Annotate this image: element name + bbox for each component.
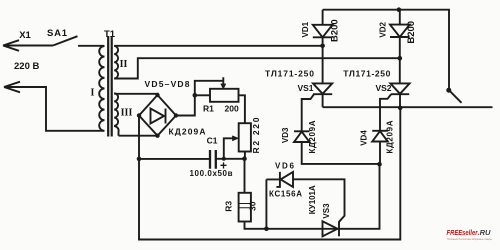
node: bridge right corner (174, 113, 178, 117)
bridge inner diode cathode bar (165, 109, 167, 124)
wire: VS2 cathode to output rail (399, 94, 401, 108)
thyristor VS3 triangle (323, 221, 338, 236)
thyristor VS1 triangle (313, 83, 332, 93)
wire: winding III top to bridge AC top (114, 94, 157, 95)
svg-text:VD2: VD2 (378, 21, 387, 37)
node: VD3/VD4 anodes junction (377, 162, 382, 167)
wire: VD4 cathode up to VS2 gate (380, 94, 391, 130)
VS2 cathode bar (391, 93, 409, 95)
svg-text:КД209А: КД209А (169, 127, 206, 137)
svg-text:VD5–VD8: VD5–VD8 (145, 79, 190, 89)
node: negative vertical / C1 wire (137, 157, 142, 162)
node: bridge bottom corner (155, 134, 159, 138)
wire: negative node to C1 left plate (139, 158, 210, 160)
svg-text:VS2: VS2 (375, 83, 391, 93)
resistor R2 box (239, 123, 251, 151)
bridge inner diode triangle (151, 109, 165, 124)
wire: SA1 to T1 primary top (78, 45, 104, 47)
wire: bridge minus down, outer bottom return to VS2 cathode (139, 108, 400, 240)
wire: VD3 bottom to VD4 bottom junction (302, 142, 380, 164)
svg-text:КД209А: КД209А (308, 120, 317, 153)
wire: rail through thyristor VS3 (323, 228, 340, 230)
wire: R2 bottom stub (244, 152, 246, 159)
wire: trigger rail VS3 cathode side up to VD3/VD4 anodes (339, 164, 380, 229)
svg-text:КС156А: КС156А (269, 190, 302, 199)
node: top rail / VD2 (397, 7, 402, 12)
transformer T1 core (108, 36, 112, 137)
node: rail A / VD1 (320, 44, 325, 49)
svg-text:30: 30 (248, 201, 258, 211)
node: switch pivot (446, 88, 451, 93)
VD6 cathode bar with foot (276, 172, 280, 187)
VS3 gate lead to VD6 (293, 179, 345, 222)
svg-text:C1: C1 (207, 136, 218, 146)
wire: VD3 cathode up to VS1 gate (302, 94, 314, 131)
svg-text:ТЛ171-250: ТЛ171-250 (343, 69, 390, 79)
svg-text:КД209А: КД209А (386, 120, 395, 153)
svg-text:VD6: VD6 (275, 162, 295, 171)
diode VD4 triangle (372, 131, 388, 141)
svg-text:III: III (121, 108, 133, 119)
svg-text:FREEseller: FREEseller (447, 228, 479, 237)
node: VS2 cathode / output rail (398, 106, 403, 111)
wire: VS1 cathode to output rail (322, 94, 324, 107)
node: bridge top corner (155, 93, 159, 97)
wire: winding III bottom to bridge AC bottom (119, 135, 158, 137)
node: C1 / R2 wiper (222, 157, 226, 161)
svg-text:VD1: VD1 (301, 21, 310, 37)
svg-text:T1: T1 (104, 29, 116, 40)
svg-text:R1: R1 (203, 104, 214, 114)
VD3 cathode bar (294, 130, 310, 132)
svg-text:КУ101А: КУ101А (308, 185, 317, 214)
wire: R3 bottom to trigger rail (245, 222, 323, 229)
diode VD1 (313, 10, 333, 46)
wire: X1 bottom to T1 primary bottom (4, 87, 104, 131)
resistor R1 box (210, 89, 239, 102)
svg-text:100.0x50в: 100.0x50в (190, 169, 233, 178)
R1 wiper arm (195, 77, 226, 95)
diode VD2 (390, 10, 410, 59)
wire: bridge plus right up to R1 node (176, 95, 195, 115)
zener VD6 triangle (281, 172, 293, 187)
terminal X1 arrow bottom (4, 82, 20, 93)
node: R2 bottom / R3 top (242, 156, 247, 161)
wire: node down to R3 top (244, 159, 246, 193)
svg-text:VS3: VS3 (322, 203, 331, 219)
thyristor VS2 triangle (390, 83, 409, 93)
svg-text:VD3: VD3 (281, 127, 290, 143)
svg-text:VS1: VS1 (297, 83, 313, 93)
node: VD6 / trigger rail (264, 227, 269, 232)
wire: VD4 bottom to junction (379, 142, 381, 164)
VS1 cathode bar (313, 93, 332, 95)
svg-text:220 В: 220 В (14, 61, 39, 72)
VD4 cathode bar (372, 130, 388, 132)
output switch blade (449, 90, 462, 103)
wire: VD1 node down to VS1 anode (crosses rail B) (322, 46, 324, 84)
svg-text:.RU: .RU (478, 228, 492, 237)
svg-text:X1: X1 (19, 30, 31, 41)
wire: C1 right plate to R2/R3 node (216, 158, 245, 160)
switch SA1 blade (53, 36, 78, 45)
transformer T1 primary winding I (99, 46, 104, 131)
transformer T1 secondary winding II (114, 46, 118, 79)
svg-text:В200: В200 (330, 19, 341, 42)
VS3 cathode bar (338, 221, 340, 236)
node: bridge left corner (137, 113, 141, 117)
transformer T1 secondary winding III (114, 93, 118, 136)
svg-text:200: 200 (225, 104, 239, 114)
svg-text:Полезные бесплатные избранные: Полезные бесплатные избранные товары (447, 237, 492, 241)
wire: winding II bottom rail to VD2 anode node (114, 58, 400, 78)
wire: VD6 cathode down to trigger rail (266, 179, 280, 228)
diode VD3 triangle (294, 132, 310, 142)
wire: R1 right to R2 top (239, 95, 245, 123)
svg-text:ТЛ171-250: ТЛ171-250 (265, 69, 314, 79)
svg-text:SA1: SA1 (47, 28, 68, 39)
svg-text:I: I (91, 88, 95, 99)
wire: node to R1 left (195, 94, 210, 96)
wire: X1 top to SA1 pivot (3, 45, 53, 47)
svg-text:В200: В200 (406, 21, 417, 44)
svg-text:VD4: VD4 (360, 130, 369, 146)
top rail: VD1 cathode to output switch (323, 10, 449, 91)
bridge rectifier VD5-VD8 diamond (139, 95, 176, 136)
R2 wiper arrow (224, 136, 238, 159)
capacitor C1 plates (210, 150, 216, 169)
svg-text:R2 220: R2 220 (251, 117, 261, 153)
resistor R3 box (239, 193, 251, 222)
svg-text:II: II (120, 59, 128, 70)
output rail: VS1/VS2 cathodes to switch contact (323, 106, 493, 108)
svg-text:R3: R3 (224, 201, 234, 212)
wire: VD2 node down to VS2 anode (399, 58, 401, 83)
node: R1 wiper junction (193, 93, 198, 98)
node: rail B / VD2 (398, 56, 403, 61)
wire: winding II top rail to VD1 anode node (114, 45, 322, 47)
terminal X1 arrow top (3, 40, 19, 51)
